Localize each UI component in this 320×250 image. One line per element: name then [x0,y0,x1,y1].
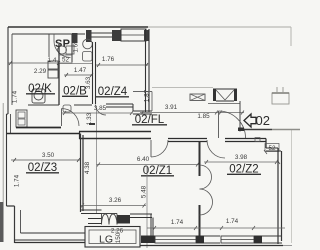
wall: bath|Z4 [92,42,94,104]
wall: bath south [74,104,92,106]
window1 [155,236,196,243]
wall: Z1 top east [168,139,207,142]
svg-text:SP: SP [55,38,70,50]
svg-text:1.76: 1.76 [102,56,115,63]
dim line 3.50 [11,159,80,161]
door Z4 arc [96,105,107,116]
fixture: stove circle [32,89,45,103]
svg-text:6.40: 6.40 [137,156,150,163]
loggia pillar [117,215,130,224]
wall: SP left [48,34,50,57]
wall: Z3 bottom [15,233,86,240]
pillar top wall 4 [144,30,149,41]
door Z1 arc [151,140,168,157]
border right faded [291,130,293,243]
svg-text:52: 52 [268,145,276,152]
scan smudge left edge [0,202,4,242]
wall: Z1 SE vertical [151,214,153,236]
svg-text:1.74: 1.74 [12,90,19,103]
svg-text:LG: LG [99,234,113,246]
wall mid [204,236,220,243]
wall: divider Z1|Z2 [199,142,201,177]
arrow 02 entrance [244,114,256,127]
window2 [221,236,254,243]
fixture: wc below bath [63,105,71,112]
pillar top wall 2 [86,30,92,42]
wall: divider Z3|Z1 [81,134,84,213]
door Z1 leaf [150,140,152,157]
dim line 1.85 [218,112,244,114]
svg-text:5.48: 5.48 [141,185,148,198]
window niche top right [121,29,146,41]
border tick top-right [290,27,292,46]
door Z2 arc [207,140,225,158]
wall: left jog mid [7,114,9,206]
svg-text:02: 02 [256,113,270,128]
elevator [213,89,216,101]
wall: Z1 south east [130,214,152,218]
symbol top right [272,93,289,104]
fixture: toilet [66,46,74,54]
svg-text:3.50: 3.50 [42,152,55,159]
svg-text:1.69: 1.69 [73,40,80,53]
pillar right [254,236,262,244]
dim chain vertical line [96,110,98,213]
door Z3 leaf [61,109,63,127]
wall: Z1 south west [81,210,102,214]
svg-text:1.74: 1.74 [226,218,239,225]
wall: kitchen|bath [58,44,60,105]
fixture: kitchen sink unit [16,110,27,127]
dim line 3.91 [140,112,218,114]
wall right of elevator [239,101,241,132]
wall: kitchen south [28,104,59,106]
bottom line left [15,242,86,244]
svg-text:3.91: 3.91 [165,104,178,111]
wall: Z3 top [16,127,61,129]
wall: Z2 top [225,139,266,142]
small box symbol [255,138,260,142]
svg-text:1.85: 1.85 [197,113,210,120]
corridor wall right [241,129,272,131]
shaft x-box [190,94,205,101]
svg-text:52: 52 [62,57,70,64]
svg-text:3.98: 3.98 [235,154,248,161]
wall piece left of loggia door [88,219,102,224]
dim line 1.76 [96,64,148,66]
wall: left outer upper [7,27,9,114]
wall: left jog bottom [7,206,15,243]
wall: Z4 bottom [106,104,133,107]
fixture: basin circle [83,39,93,49]
svg-text:4.38: 4.38 [84,161,91,174]
door Z3 arc [62,109,80,127]
door SP arc [54,34,71,58]
fixture: boxes on wall [48,61,58,69]
dim line 2.29 [8,62,59,64]
svg-text:150: 150 [115,232,122,243]
wall: bottom west chunk [141,236,155,244]
wall: Z4 right [145,29,147,112]
entrance door arc [219,111,246,138]
bottom windows dim line [147,227,285,229]
svg-text:3.63: 3.63 [85,76,92,89]
faint corridor line [152,87,213,89]
wall: Z2 right [278,148,282,244]
loggia box [85,227,140,248]
doors Z1|Z2 double arcs [200,165,212,189]
window Z4 top [91,33,112,37]
wall: top inner line [12,33,85,35]
pillar mid [196,236,204,244]
svg-text:3.26: 3.26 [109,197,122,204]
wall: SP right [71,34,73,62]
svg-text:1.47: 1.47 [74,67,87,74]
pillar top wall 3 [112,30,121,41]
pillar top wall 1 [72,33,78,43]
dim line 1.47 [64,74,93,76]
svg-text:3.85: 3.85 [94,105,107,112]
wall: Z2 jog [265,139,267,149]
wall: top outer faded right [148,26,291,28]
loggia doors M arcs [102,214,118,225]
entrance door leaf [218,111,220,138]
wall: left inner upper [11,34,13,105]
dim .52 boxed [265,144,279,152]
hallway south band [79,131,151,133]
svg-text:1.74: 1.74 [171,219,184,226]
bottom outer line right [140,245,283,247]
svg-text:1.74: 1.74 [14,174,21,187]
wall: top outer dark [8,26,148,28]
dark dash [89,123,95,125]
dim line 3.85 [62,112,133,114]
stair wall [133,92,152,112]
svg-text:1.87: 1.87 [144,89,151,102]
svg-text:2.29: 2.29 [34,68,47,75]
